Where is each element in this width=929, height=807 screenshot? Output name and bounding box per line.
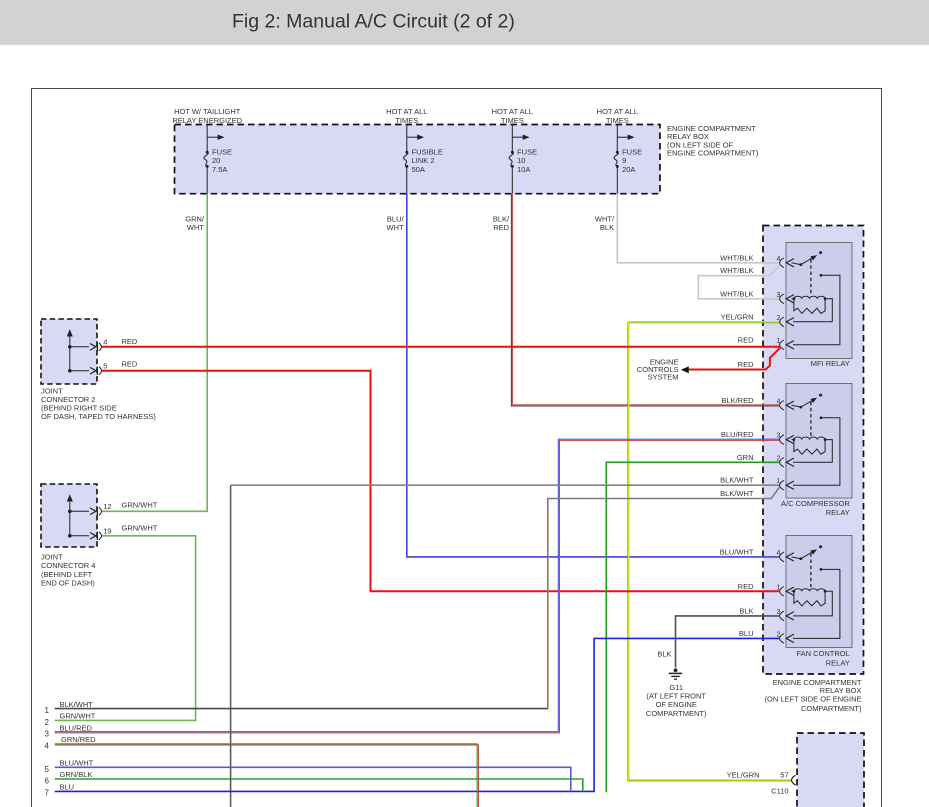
MFI relay U1 internals <box>780 257 840 350</box>
svg-text:7: 7 <box>45 789 50 798</box>
svg-text:FUSE: FUSE <box>212 147 232 156</box>
wire WHT/BLK fuse9 to MFI relay pin4 <box>617 194 779 263</box>
svg-text:Fig 2: Manual A/C Circuit (2 o: Fig 2: Manual A/C Circuit (2 of 2) <box>232 11 515 33</box>
wire BLU/WHT fusible link2 to fan relay pin4 <box>407 194 779 557</box>
wire RED JC2 pin5 to fan relay pin1 <box>102 371 779 592</box>
svg-text:YEL/GRN: YEL/GRN <box>727 771 760 780</box>
svg-text:WHT/BLK: WHT/BLK <box>720 289 753 298</box>
wire BLK fan relay pin3 to ground G11 <box>676 616 780 668</box>
fuse F1 (FUSE 20 7.5A) <box>204 125 218 194</box>
svg-text:1: 1 <box>776 584 780 591</box>
JC4 name label <box>41 553 95 588</box>
wire BLK/RED fuse10 to A/C relay pin4 (black strand) <box>511 194 779 406</box>
svg-text:RELAY: RELAY <box>826 659 850 668</box>
svg-text:3: 3 <box>776 609 780 616</box>
svg-text:7.5A: 7.5A <box>212 165 227 174</box>
svg-text:YEL/GRN: YEL/GRN <box>721 312 754 321</box>
svg-text:HOT AT ALL: HOT AT ALL <box>386 107 427 116</box>
svg-text:RED: RED <box>738 360 754 369</box>
fuse F3 (FUSE 10 10A) <box>509 125 523 194</box>
engine compartment relay box label (top) <box>667 124 759 158</box>
wire GRN/WHT fuse20 to JC4 pin12 <box>102 194 207 512</box>
header bar <box>0 0 929 45</box>
svg-text:FUSE: FUSE <box>622 147 642 156</box>
svg-text:GRN/BLK: GRN/BLK <box>60 770 93 779</box>
svg-text:RED: RED <box>122 359 138 368</box>
svg-text:TIMES: TIMES <box>395 116 418 125</box>
svg-text:12: 12 <box>103 502 111 511</box>
wire GRN/WHT JC4 pin19 to row2 <box>55 536 196 721</box>
joint connector 2 internals <box>70 333 102 375</box>
svg-text:BLK/RED: BLK/RED <box>721 396 754 405</box>
relay box dashed enclosure (right) <box>763 226 864 675</box>
svg-text:WHT: WHT <box>387 223 404 232</box>
fan control relay pin numbers and name label <box>776 550 849 668</box>
fan control relay wire colour labels <box>720 547 754 638</box>
svg-text:BLK/WHT: BLK/WHT <box>720 476 754 485</box>
svg-text:GRN/WHT: GRN/WHT <box>122 501 158 510</box>
fuse F2 (FUSIBLE LINK 2 50A) <box>404 125 418 194</box>
wire BLU/RED row3 to A/C relay pin3 (blue strand) <box>55 439 779 732</box>
svg-text:FUSE: FUSE <box>517 147 537 156</box>
svg-text:GRN/WHT: GRN/WHT <box>122 523 158 532</box>
wire YEL/GRN MFI pin2 to C110 pin57 (yellow strand) <box>629 322 791 780</box>
wire BLK/RED fuse10 to A/C relay pin4 (red strand) <box>513 194 780 405</box>
wire GRN/RED row4 (two-tone) <box>55 744 478 807</box>
svg-text:RED: RED <box>738 335 754 344</box>
joint connector 2 box <box>41 319 97 384</box>
svg-text:WHT/BLK: WHT/BLK <box>720 253 753 262</box>
svg-text:2: 2 <box>776 315 780 322</box>
wire BLK/WHT branch a vertical <box>230 485 232 807</box>
MFI relay box U1 <box>786 243 852 359</box>
svg-text:3: 3 <box>45 730 50 739</box>
svg-text:BLK/WHT: BLK/WHT <box>720 489 754 498</box>
svg-text:TIMES: TIMES <box>606 116 629 125</box>
engine controls system arrow <box>681 366 689 373</box>
svg-text:50A: 50A <box>412 165 425 174</box>
svg-text:10A: 10A <box>517 165 530 174</box>
svg-text:COMPARTMENT): COMPARTMENT) <box>646 709 707 718</box>
svg-text:2: 2 <box>45 718 50 727</box>
svg-text:20: 20 <box>212 156 220 165</box>
wire GRN to A/C relay pin2 <box>606 462 779 792</box>
svg-text:4: 4 <box>776 550 780 557</box>
svg-text:WHT: WHT <box>187 223 204 232</box>
svg-text:JOINT: JOINT <box>41 553 63 562</box>
wire YEL/GRN MFI pin2 to C110 pin57 (green strand) <box>628 323 792 781</box>
svg-text:20A: 20A <box>622 165 635 174</box>
svg-text:5: 5 <box>45 765 50 774</box>
svg-text:HOT W/ TAILLIGHT: HOT W/ TAILLIGHT <box>174 107 241 116</box>
wire BLK/WHT A/C relay pin1 branch a (horizontal) <box>231 484 779 486</box>
svg-text:4: 4 <box>776 256 780 263</box>
svg-text:COMPARTMENT): COMPARTMENT) <box>801 704 862 713</box>
svg-text:LINK 2: LINK 2 <box>412 156 435 165</box>
svg-text:(BEHIND LEFT: (BEHIND LEFT <box>41 570 93 579</box>
svg-text:1: 1 <box>45 706 50 715</box>
svg-text:1: 1 <box>776 338 780 345</box>
svg-text:1: 1 <box>776 478 780 485</box>
svg-text:C110: C110 <box>771 786 788 795</box>
svg-text:BLK: BLK <box>600 223 614 232</box>
joint connector 4 internals <box>70 498 102 540</box>
svg-text:BLU/RED: BLU/RED <box>60 723 93 732</box>
A/C compressor relay U2 internals <box>780 399 840 490</box>
svg-text:FAN CONTROL: FAN CONTROL <box>796 649 849 658</box>
svg-text:MFI RELAY: MFI RELAY <box>811 359 850 368</box>
svg-text:BLU/WHT: BLU/WHT <box>720 547 754 556</box>
svg-text:4: 4 <box>103 337 107 346</box>
wire BLK/WHT row1 <box>55 708 548 710</box>
ground G11 <box>669 668 682 679</box>
svg-text:5: 5 <box>103 361 107 370</box>
svg-text:BLK/WHT: BLK/WHT <box>60 700 94 709</box>
svg-text:2: 2 <box>776 631 780 638</box>
fan control relay box U3 <box>786 536 852 648</box>
svg-text:WHT/BLK: WHT/BLK <box>720 266 753 275</box>
wire BLU row7 to fan relay pin2 <box>55 638 779 791</box>
svg-text:RED: RED <box>493 223 509 232</box>
svg-text:9: 9 <box>622 156 626 165</box>
svg-text:RELAY: RELAY <box>826 508 850 517</box>
wire BLU/RED row3 to A/C relay pin3 (red strand) <box>55 440 779 733</box>
svg-text:GRN/RED: GRN/RED <box>61 735 96 744</box>
wire BLK/WHT A/C relay pin1 branch b <box>548 487 780 709</box>
svg-text:HOT AT ALL: HOT AT ALL <box>492 107 533 116</box>
fuse F4 (FUSE 9 20A) <box>614 125 628 194</box>
svg-text:BLK: BLK <box>657 650 671 659</box>
svg-text:HOT AT ALL: HOT AT ALL <box>597 107 638 116</box>
connector C110 pin 57 <box>792 775 796 785</box>
svg-text:3: 3 <box>776 292 780 299</box>
svg-text:10: 10 <box>517 156 525 165</box>
svg-text:A/C COMPRESSOR: A/C COMPRESSOR <box>781 499 850 508</box>
svg-text:SYSTEM: SYSTEM <box>648 372 679 381</box>
svg-text:2: 2 <box>776 455 780 462</box>
joint connector 4 box <box>41 484 97 547</box>
svg-text:CONNECTOR 4: CONNECTOR 4 <box>41 561 95 570</box>
connector C110 box <box>797 733 864 807</box>
wire GRN/BLK row6 <box>55 779 583 791</box>
wire RED JC2 pin4 to MFI pin1 <box>102 346 780 348</box>
wire BLU/WHT row5 <box>55 767 571 791</box>
svg-text:BLU: BLU <box>60 782 75 791</box>
power distribution box (engine compartment relay box, top) <box>175 125 661 194</box>
svg-text:GRN/WHT: GRN/WHT <box>60 712 96 721</box>
A/C compressor relay wire colour labels <box>720 396 754 498</box>
svg-text:19: 19 <box>103 526 111 535</box>
svg-text:ENGINE COMPARTMENT): ENGINE COMPARTMENT) <box>667 149 759 158</box>
svg-text:57: 57 <box>780 771 788 780</box>
svg-text:FUSIBLE: FUSIBLE <box>412 147 443 156</box>
svg-text:6: 6 <box>45 777 50 786</box>
engine compartment relay box label (bottom) <box>765 678 862 713</box>
svg-text:GRN: GRN <box>737 453 754 462</box>
svg-text:4: 4 <box>45 742 50 751</box>
A/C compressor relay box U2 <box>786 384 852 499</box>
JC2 name label <box>41 387 156 422</box>
A/C compressor relay pin numbers and name label <box>776 398 850 517</box>
svg-text:(ON LEFT SIDE OF ENGINE: (ON LEFT SIDE OF ENGINE <box>765 695 862 704</box>
MFI relay pin numbers and name label <box>776 256 849 368</box>
svg-text:BLK: BLK <box>739 606 753 615</box>
fan control relay U3 internals <box>780 551 840 644</box>
wire RED MFI pin1 branch to engine controls system <box>689 348 780 370</box>
svg-text:4: 4 <box>776 398 780 405</box>
svg-text:RED: RED <box>738 582 754 591</box>
svg-text:RED: RED <box>122 337 138 346</box>
svg-text:RELAY ENERGIZED: RELAY ENERGIZED <box>172 116 242 125</box>
wire WHT/BLK MFI pin4 to pin3 loop <box>698 265 780 299</box>
svg-text:OF DASH, TAPED TO HARNESS): OF DASH, TAPED TO HARNESS) <box>41 412 156 421</box>
svg-text:3: 3 <box>776 433 780 440</box>
MFI relay wire colour labels <box>720 253 754 369</box>
svg-text:TIMES: TIMES <box>501 116 524 125</box>
svg-text:BLU/RED: BLU/RED <box>721 430 754 439</box>
svg-text:END OF DASH): END OF DASH) <box>41 579 95 588</box>
svg-text:BLU: BLU <box>739 629 754 638</box>
svg-text:BLU/WHT: BLU/WHT <box>60 759 94 768</box>
